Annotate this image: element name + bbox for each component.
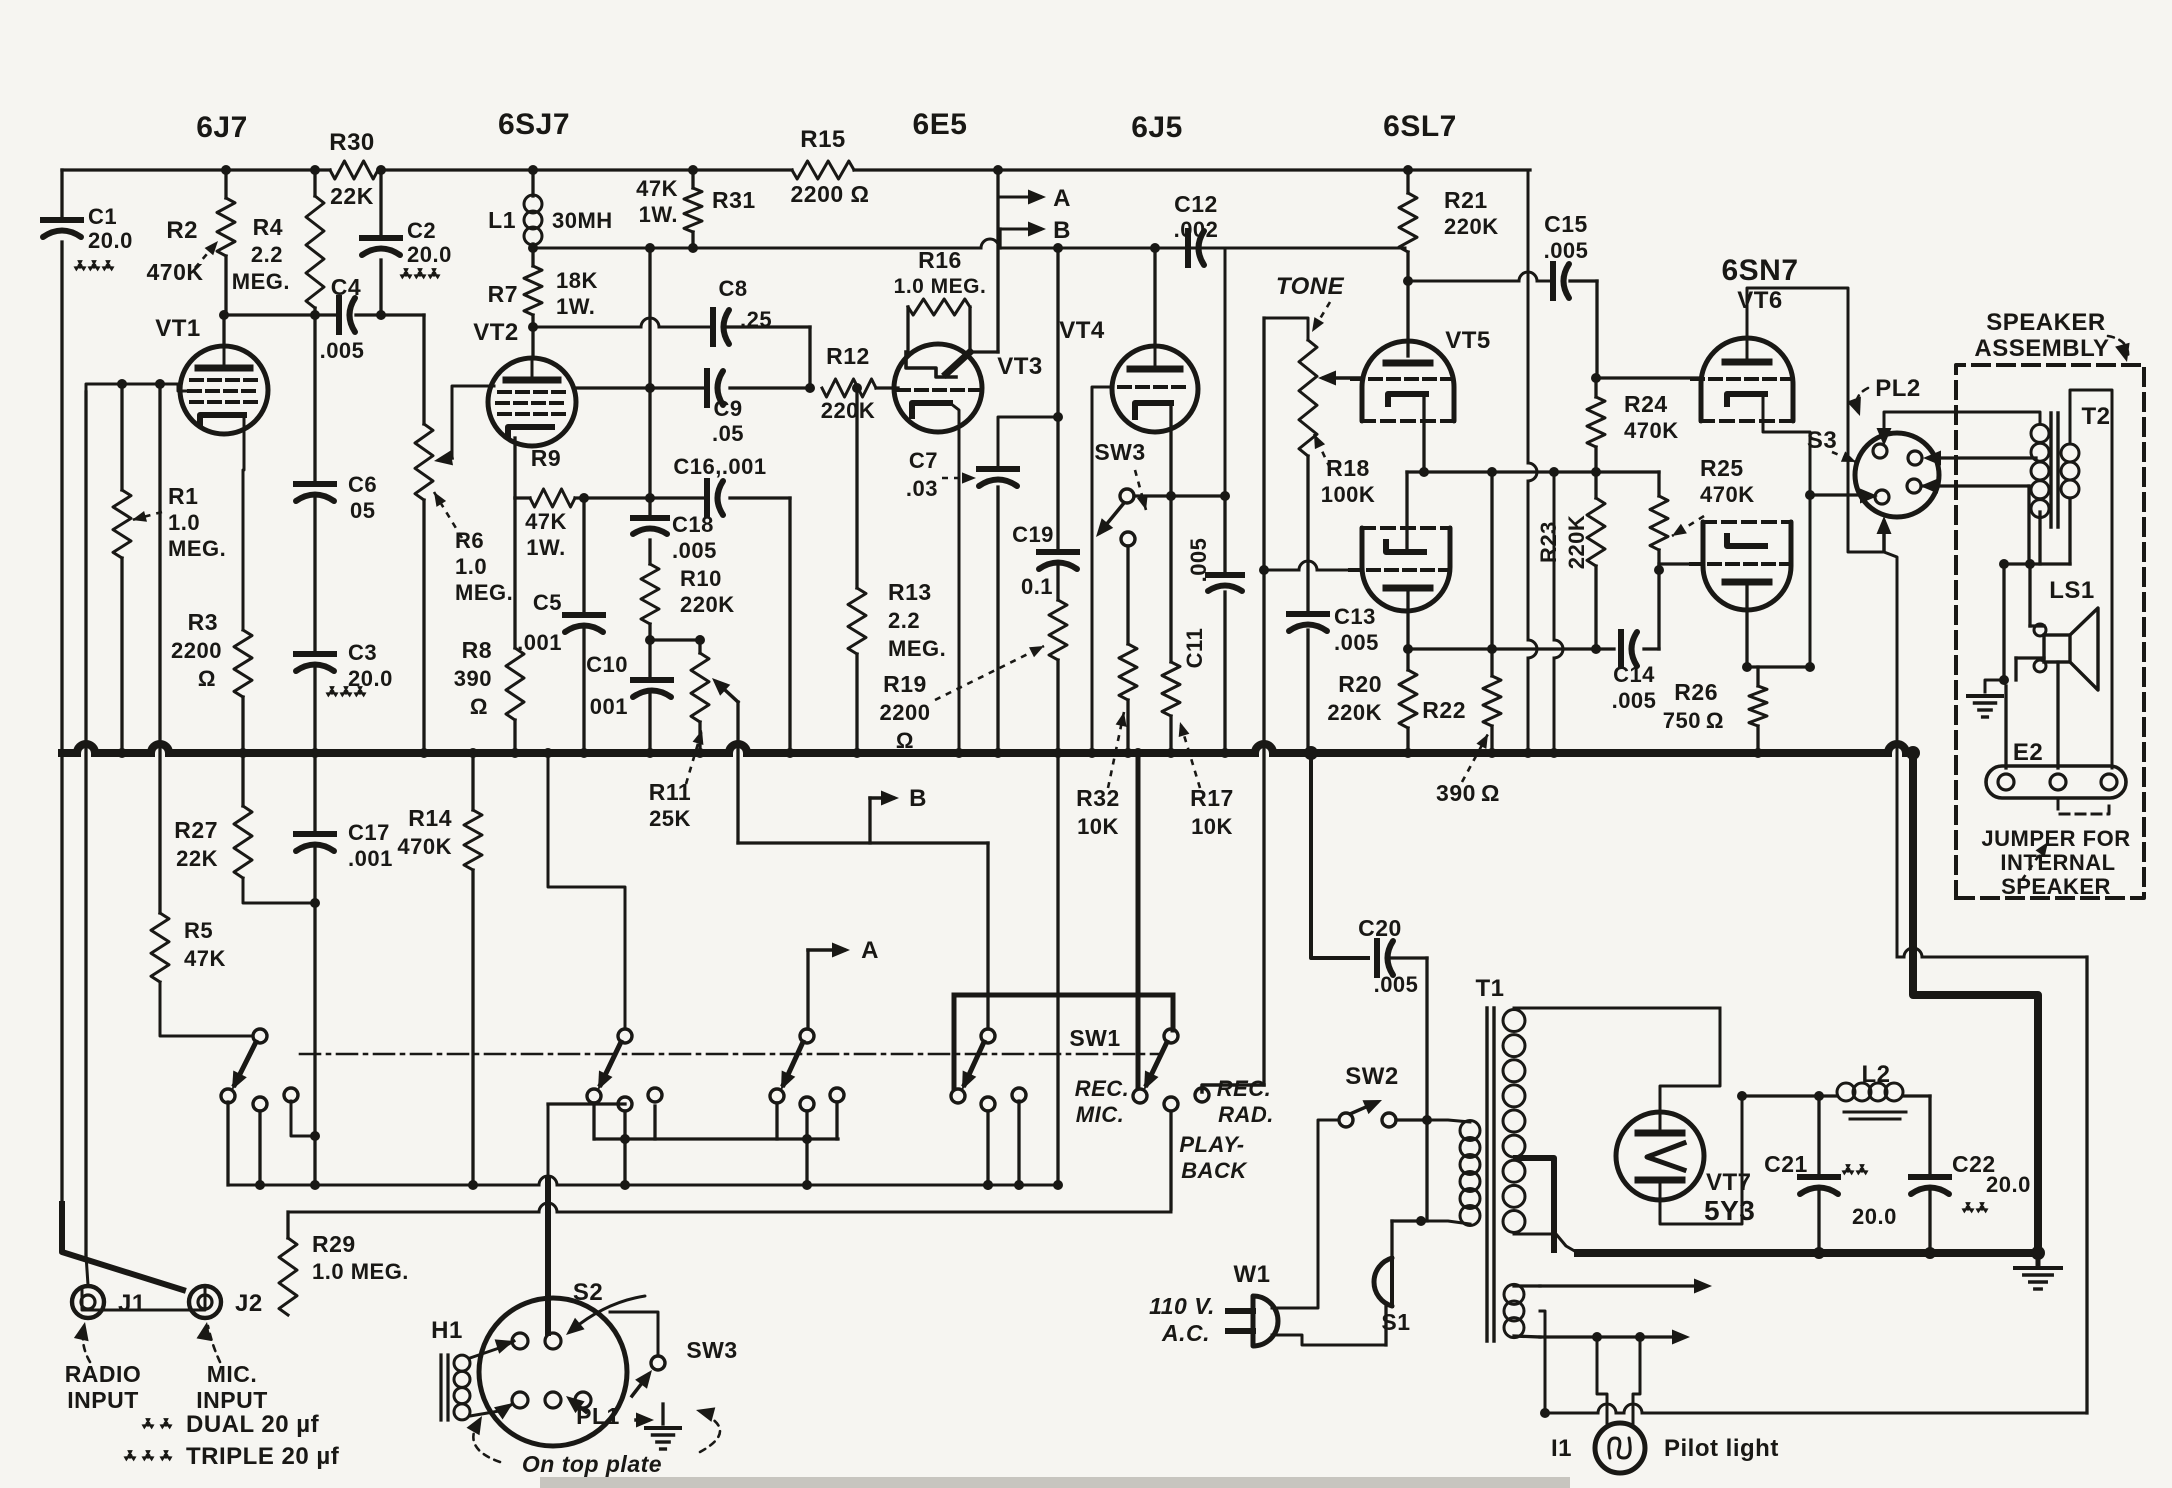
wire VT7 top plate: [1660, 1008, 1720, 1133]
wire plate node to C4: [224, 313, 338, 316]
wire plate row: [1408, 647, 1614, 650]
svg-text:INPUT: INPUT: [196, 1387, 268, 1413]
transformer T1 primary: [1460, 1121, 1480, 1141]
capacitor C16: [704, 481, 710, 515]
capacitor C11: [1208, 572, 1242, 578]
svg-text:10K: 10K: [1077, 814, 1119, 839]
wire HV center tap (thick): [1516, 1158, 1554, 1250]
capacitor C2: [362, 235, 400, 241]
svg-text:RADIO: RADIO: [65, 1361, 142, 1387]
wire R5 to switch: [160, 982, 252, 1036]
wire B line drop: [1056, 248, 1059, 550]
jack J1: [72, 1286, 104, 1318]
svg-text:6J7: 6J7: [196, 111, 248, 144]
wire bank3 middle drop: [805, 1111, 808, 1185]
resistor R2: [217, 198, 235, 256]
wire lower arrow A: [808, 948, 844, 952]
svg-text:R32: R32: [1076, 785, 1120, 811]
svg-text:2200: 2200: [171, 638, 222, 663]
wire bank1 drops: [226, 1102, 229, 1185]
svg-text:R19: R19: [883, 671, 927, 697]
junction: [1133, 748, 1143, 758]
svg-text:2200: 2200: [880, 700, 931, 725]
wire bank4 drops: [986, 1111, 989, 1185]
capacitor C7: [979, 466, 1017, 472]
wire VT5 cathodes: [1422, 396, 1425, 472]
wire VT2 grid: [452, 386, 494, 458]
svg-text:C11: C11: [1182, 628, 1207, 669]
svg-text:Pilot light: Pilot light: [1664, 1435, 1779, 1462]
svg-text:.001: .001: [517, 630, 562, 655]
junction: [117, 748, 127, 758]
svg-text:1.0 MEG.: 1.0 MEG.: [312, 1259, 409, 1284]
wire speaker return row: [1897, 956, 1904, 959]
jumper (dashed): [2058, 800, 2109, 814]
wire VT3 to B+ drop: [996, 170, 999, 352]
wire bank2-3 contact loop: [595, 1137, 838, 1140]
wire heater return: [1545, 1412, 1598, 1415]
svg-text:J2: J2: [235, 1290, 263, 1317]
junction: [219, 310, 229, 320]
junction: [1422, 1115, 1432, 1125]
switch S1: [1374, 1258, 1392, 1306]
wire SW3 row: [1134, 494, 1225, 497]
ground: [1968, 694, 2002, 698]
wire C9 row: [576, 386, 706, 389]
jack J2: [189, 1286, 221, 1318]
resistor R12: [822, 379, 876, 397]
wire R8 to bus: [513, 720, 516, 753]
wire VT5 upper plate: [1406, 281, 1409, 356]
wire ground stub: [1985, 680, 2004, 692]
svg-text:R26: R26: [1674, 679, 1718, 705]
junction: [645, 383, 655, 393]
wire main ground bus (thick): [62, 749, 77, 757]
wire speaker node row: [2004, 562, 2070, 565]
junction: [1523, 748, 1533, 758]
svg-text:C6: C6: [348, 472, 377, 497]
wire R18 wiper: [1324, 376, 1363, 380]
svg-text:MEG.: MEG.: [168, 536, 226, 561]
resistor R27: [234, 806, 252, 878]
wire long row A: [228, 1184, 539, 1187]
svg-text:C7: C7: [909, 448, 938, 473]
svg-text:R16: R16: [918, 247, 962, 273]
capacitor C18: [633, 515, 667, 521]
wire E2 terminal risers: [2004, 686, 2007, 768]
resistor R5: [151, 913, 169, 982]
wire VT6 upper plate: [1747, 288, 1884, 552]
svg-text:R18: R18: [1326, 455, 1370, 481]
wire VT1 plate lead: [222, 315, 225, 346]
svg-text:1W.: 1W.: [526, 535, 565, 560]
svg-text:.002: .002: [1174, 217, 1219, 242]
switch SW1 bank 4: [981, 1029, 995, 1043]
junction: [1304, 746, 1318, 760]
wire R32 to bus: [1126, 700, 1129, 753]
junction: [155, 379, 165, 389]
wire VT4 grid: [1092, 387, 1112, 753]
svg-text:R14: R14: [408, 805, 452, 831]
svg-text:2200 Ω: 2200 Ω: [791, 181, 870, 207]
svg-text:MEG.: MEG.: [232, 269, 290, 294]
switch S2 bank 1: [253, 1029, 267, 1043]
svg-text:R22: R22: [1422, 697, 1466, 723]
junction: [419, 748, 429, 758]
junction: [1906, 746, 1920, 760]
svg-text:1W.: 1W.: [556, 294, 595, 319]
capacitor C9: [704, 371, 710, 405]
wire output to plug: [1810, 493, 1866, 496]
junction: [579, 493, 589, 503]
svg-text:S3: S3: [1807, 427, 1837, 454]
svg-text:6J5: 6J5: [1131, 111, 1183, 144]
dual-section marker for C22: [1965, 1202, 1971, 1208]
svg-text:20.0: 20.0: [407, 242, 452, 267]
wire T2 primary bottom: [2038, 512, 2041, 564]
junction: [510, 748, 520, 758]
svg-text:A: A: [861, 937, 879, 964]
resistor R32: [1119, 644, 1137, 700]
svg-text:R25: R25: [1700, 455, 1744, 481]
junction: [1150, 243, 1160, 253]
svg-text:470K: 470K: [1624, 418, 1679, 443]
junction: [785, 748, 795, 758]
capacitor C12: [1185, 231, 1191, 265]
junction: [852, 383, 862, 393]
wire T1 primary drop: [1425, 1120, 1428, 1221]
junction: [852, 748, 862, 758]
wire grid to R1: [120, 384, 123, 490]
svg-text:TRIPLE 20 µf: TRIPLE 20 µf: [186, 1443, 340, 1470]
resistor R7: [531, 248, 534, 266]
junction: [543, 748, 553, 758]
svg-text:C14: C14: [1613, 662, 1655, 687]
svg-text:SPEAKER: SPEAKER: [1986, 309, 2106, 336]
svg-text:MIC.: MIC.: [207, 1361, 258, 1387]
svg-text:Ω: Ω: [198, 666, 216, 691]
resistor R29: [286, 1212, 289, 1238]
svg-text:VT1: VT1: [155, 315, 201, 342]
svg-text:LS1: LS1: [2049, 577, 2095, 604]
junction: [688, 165, 698, 175]
svg-text:.25: .25: [740, 307, 772, 332]
resistor R30: [330, 161, 378, 179]
wire filter node: [1819, 1094, 1836, 1097]
junction: [1087, 748, 1097, 758]
svg-text:R10: R10: [680, 566, 722, 591]
junction: [645, 243, 655, 253]
svg-text:470K: 470K: [397, 834, 452, 859]
junction: [1592, 1332, 1602, 1342]
svg-text:VT7: VT7: [1706, 1169, 1752, 1196]
wire S1 to T1: [1384, 1306, 1387, 1345]
svg-text:VT5: VT5: [1445, 327, 1491, 354]
wire R5 chain: [158, 384, 161, 913]
junction: [1403, 644, 1413, 654]
svg-text:A.C.: A.C.: [1161, 1320, 1210, 1346]
wire C20 feed: [1311, 753, 1368, 958]
wire R27 to switch contact: [243, 878, 315, 903]
svg-text:INTERNAL: INTERNAL: [2000, 850, 2115, 875]
svg-text:REC.: REC.: [1217, 1076, 1272, 1101]
svg-text:C19: C19: [1012, 522, 1054, 547]
arrow B: [1032, 227, 1040, 231]
svg-text:05: 05: [350, 498, 375, 523]
wire plug bottom drop: [1884, 552, 1897, 957]
svg-text:VT4: VT4: [1059, 317, 1105, 344]
wire R18 bottom to bus: [1306, 456, 1309, 612]
svg-text:SW3: SW3: [686, 1337, 737, 1363]
svg-text:20.0: 20.0: [1852, 1204, 1897, 1229]
wire R16 right leg: [968, 307, 971, 352]
svg-text:C2: C2: [407, 218, 436, 243]
svg-text:C13: C13: [1334, 604, 1376, 629]
junction: [620, 1134, 630, 1144]
speaker assembly enclosure (dashed): [1956, 365, 2144, 898]
wire C11 chain: [1223, 496, 1226, 574]
svg-text:R27: R27: [174, 817, 218, 843]
junction: [802, 1134, 812, 1144]
capacitor C6: [296, 481, 334, 487]
svg-text:C17: C17: [348, 820, 390, 845]
inductor L2: [1837, 1083, 1855, 1101]
tube VT4 (6J5 triode): [1112, 346, 1198, 432]
wire J1 bottom: [82, 1287, 205, 1310]
svg-text:47K: 47K: [184, 946, 226, 971]
capacitor C13: [1289, 611, 1327, 617]
junction: [1549, 467, 1559, 477]
junction: [1999, 559, 2009, 569]
svg-text:On top plate: On top plate: [522, 1451, 662, 1477]
wire bank4 pivot feed: [986, 843, 989, 1029]
wire VT6 lower grid: [1659, 562, 1701, 565]
svg-text:C9: C9: [713, 396, 742, 421]
arrow A: [1032, 195, 1040, 199]
svg-text:22K: 22K: [176, 846, 218, 871]
wire signal row 843: [738, 841, 988, 844]
heater choke H1 core: [439, 1355, 442, 1420]
svg-text:.005: .005: [1374, 972, 1419, 997]
svg-text:R30: R30: [329, 129, 375, 156]
resistor R16: [908, 299, 970, 315]
tube VT2 (6SJ7 pentode): [488, 358, 576, 446]
wire ground stub: [2036, 1253, 2041, 1266]
svg-text:R1: R1: [168, 483, 198, 509]
junction: [2031, 1246, 2045, 1260]
svg-text:C5: C5: [533, 590, 562, 615]
junction: [993, 748, 1003, 758]
tube VT6 lower triode (6SN7): [1703, 522, 1791, 610]
wire plug pin3 to box: [1922, 484, 2029, 487]
resistor R14: [471, 753, 474, 810]
svg-text:.005: .005: [672, 538, 717, 563]
resistor R10: [641, 564, 659, 624]
resistor R19: [1049, 600, 1067, 660]
junction: [221, 165, 231, 175]
wire R11 top: [698, 640, 701, 653]
svg-text:JUMPER FOR: JUMPER FOR: [1981, 826, 2130, 851]
wire cathode branch drop: [1553, 472, 1556, 640]
svg-text:R20: R20: [1338, 671, 1382, 697]
svg-text:I1: I1: [1551, 1435, 1572, 1462]
junction: [1053, 748, 1063, 758]
wire thick socket feed: [547, 1104, 550, 1180]
svg-text:C21: C21: [1764, 1151, 1808, 1177]
junction: [1753, 748, 1763, 758]
svg-text:1.0: 1.0: [455, 554, 487, 579]
transformer T2 secondary: [2061, 444, 2079, 462]
svg-text:20.0: 20.0: [88, 228, 133, 253]
svg-text:C1: C1: [88, 204, 117, 229]
junction: [1540, 1408, 1550, 1418]
svg-text:R13: R13: [888, 579, 932, 605]
wire R4 branch: [313, 170, 316, 196]
svg-text:T2: T2: [2081, 403, 2110, 430]
svg-text:J1: J1: [118, 1290, 146, 1317]
wire VT4 plate: [1153, 248, 1156, 346]
capacitor C21: [1800, 1174, 1838, 1180]
wire C2 branch: [379, 170, 382, 234]
ground: [646, 1426, 680, 1430]
junction: [1742, 662, 1752, 672]
wire W1 to S1: [1272, 1335, 1386, 1345]
capacitor C4: [336, 298, 342, 332]
junction: [579, 748, 589, 758]
wire thick bus right drop: [1913, 753, 2038, 1253]
svg-text:390: 390: [454, 666, 492, 691]
switch SW2: [1339, 1113, 1353, 1127]
tube VT7 (5Y3 rectifier): [1616, 1112, 1704, 1200]
resistor R25: [1657, 472, 1660, 496]
switch S2 bank 3: [800, 1029, 814, 1043]
svg-text:R4: R4: [253, 214, 283, 240]
wire B+ top bus: [62, 168, 330, 171]
wire VT4 cathode: [1169, 403, 1172, 496]
svg-text:001: 001: [590, 694, 628, 719]
svg-text:C12: C12: [1174, 191, 1218, 217]
capacitor C1: [43, 217, 81, 223]
svg-text:1W.: 1W.: [639, 202, 678, 227]
wire R2 branch: [224, 170, 227, 198]
svg-text:R5: R5: [184, 918, 213, 943]
wire C22 branch: [1928, 1096, 1931, 1174]
svg-text:R6: R6: [455, 528, 484, 553]
wire R11 to bus: [698, 722, 701, 753]
svg-text:SW2: SW2: [1345, 1063, 1399, 1090]
svg-text:Ω: Ω: [470, 694, 488, 719]
tube VT6 upper triode (6SN7): [1701, 338, 1793, 421]
loudspeaker LS1: [2044, 635, 2070, 662]
socket S2/PL1: [479, 1298, 627, 1446]
wire T2 primary tap to plug: [1929, 456, 2036, 459]
wire VT6 lower plate: [1745, 584, 1748, 667]
svg-text:10K: 10K: [1191, 814, 1233, 839]
wire left rail: [60, 170, 63, 216]
svg-text:MIC.: MIC.: [1076, 1102, 1124, 1127]
wire W1 to SW2: [1272, 1120, 1339, 1308]
wire R16 left leg: [906, 307, 909, 352]
svg-text:T1: T1: [1475, 975, 1504, 1002]
junction: [468, 748, 478, 758]
svg-text:.03: .03: [906, 476, 938, 501]
svg-text:REC.: REC.: [1075, 1076, 1130, 1101]
svg-text:SW3: SW3: [1094, 439, 1145, 465]
wire switch gang line (dash-dot): [300, 1053, 1160, 1056]
capacitor C22: [1911, 1174, 1949, 1180]
wire arrow A stem: [998, 196, 1032, 199]
svg-text:A: A: [1053, 185, 1071, 212]
svg-text:.005: .005: [1544, 238, 1589, 263]
wire SW3 lower contact drop: [1126, 546, 1129, 644]
junction: [1053, 243, 1063, 253]
svg-text:DUAL 20 µf: DUAL 20 µf: [186, 1411, 320, 1438]
transformer T2 primary: [2031, 424, 2049, 442]
junction: [983, 1180, 993, 1190]
svg-text:C10: C10: [586, 652, 628, 677]
wire screen bus line B: [533, 247, 981, 250]
svg-text:.005: .005: [1612, 688, 1657, 713]
wire R24 top: [1594, 378, 1597, 397]
wire VT6 upper cathode: [1763, 398, 1810, 667]
svg-text:100K: 100K: [1321, 482, 1376, 507]
transformer T1 heater winding: [1504, 1284, 1524, 1304]
svg-text:.005: .005: [320, 338, 365, 363]
capacitor C8: [710, 310, 716, 344]
svg-text:6SL7: 6SL7: [1383, 110, 1457, 143]
tube VT5 upper triode (6SL7): [1362, 341, 1454, 421]
svg-text:L2: L2: [1861, 1061, 1890, 1088]
svg-text:110 V.: 110 V.: [1149, 1293, 1215, 1319]
scan artifact: [540, 1477, 1570, 1488]
svg-text:R15: R15: [800, 126, 846, 153]
transformer T1 HV secondary: [1503, 1010, 1525, 1032]
capacitor C20: [1374, 941, 1380, 975]
wire tone drop: [1262, 318, 1265, 1085]
svg-text:R12: R12: [826, 343, 870, 369]
resistor R31: [691, 170, 694, 188]
svg-text:750 Ω: 750 Ω: [1663, 708, 1724, 733]
triple-section marker for C3: [329, 686, 335, 692]
svg-text:30MH: 30MH: [552, 208, 613, 233]
svg-text:25K: 25K: [649, 806, 691, 831]
wire VT1 cathode: [243, 416, 244, 630]
resistor R15: [792, 161, 854, 179]
wire SW3 ground leg: [661, 1404, 664, 1424]
svg-text:R7: R7: [488, 281, 518, 307]
wire VT2 cathode: [513, 438, 516, 498]
svg-text:E2: E2: [2013, 739, 2043, 766]
svg-text:220K: 220K: [1444, 214, 1499, 239]
svg-text:R17: R17: [1190, 785, 1234, 811]
wire R24 bottom: [1594, 447, 1597, 472]
junction: [528, 243, 538, 253]
svg-text:R3: R3: [188, 609, 218, 635]
svg-text:6SN7: 6SN7: [1721, 254, 1798, 287]
triple-section marker for C2: [403, 268, 409, 274]
svg-text:.005: .005: [1186, 538, 1211, 583]
dual-section marker for C21: [1845, 1164, 1851, 1170]
svg-text:B: B: [909, 785, 927, 812]
wire C5 hang: [582, 498, 585, 612]
junction: [1591, 373, 1601, 383]
svg-text:C4: C4: [331, 274, 361, 300]
capacitor C10: [633, 677, 671, 683]
svg-text:.05: .05: [712, 421, 744, 446]
plug W1: [1228, 1308, 1253, 1314]
svg-text:20.0: 20.0: [348, 666, 393, 691]
wire SW3 to socket: [610, 1312, 658, 1356]
